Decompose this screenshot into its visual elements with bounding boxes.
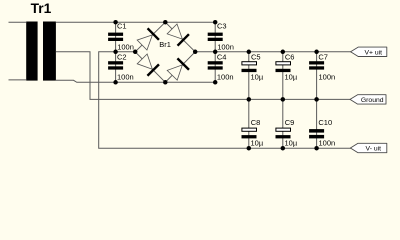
junction V- rail at C10 — [314, 146, 319, 151]
bridge rectifier Br1 diamond edges — [135, 22, 195, 82]
junction top rail at C1 — [113, 20, 118, 25]
svg-text:V- uit: V- uit — [366, 146, 382, 153]
capacitor C2 — [108, 61, 123, 69]
diode lower-left (V- to AC2) — [137, 54, 159, 76]
junction V+ rail at C7 — [314, 50, 319, 55]
junction mid rail at C1/C2 — [113, 50, 118, 55]
svg-text:100n: 100n — [319, 73, 336, 82]
capacitor C6 electrolytic — [276, 62, 291, 72]
node flag Ground — [350, 95, 386, 104]
junction V- rail at C8 — [247, 146, 252, 151]
wire net AC1 top rail — [56, 21, 215, 23]
junction bottom rail at C4 — [213, 80, 218, 85]
capacitor C3 — [208, 33, 223, 41]
wire V+ rail — [195, 51, 351, 53]
junction bridge left node — [133, 50, 138, 55]
svg-text:10µ: 10µ — [251, 139, 264, 148]
diode upper-left (V- to AC1) — [137, 28, 159, 50]
diode upper-right (AC1 to V+) — [167, 24, 189, 46]
svg-text:Ground: Ground — [361, 97, 384, 104]
wire primary top — [9, 21, 27, 23]
svg-text:C2: C2 — [117, 52, 127, 61]
svg-text:C3: C3 — [217, 22, 227, 31]
junction top rail at bridge top node — [163, 20, 168, 25]
junction V- rail at C9 — [281, 146, 286, 151]
junction V+ rail at C6 — [281, 50, 286, 55]
svg-text:10µ: 10µ — [285, 139, 298, 148]
junction ground rail at C7/C10 — [314, 97, 319, 102]
wire column C1/C2 — [115, 22, 117, 82]
node flag V+ uit — [351, 47, 387, 56]
junction bridge right node — [193, 50, 198, 55]
diode lower-right (AC2 to V+) — [167, 58, 189, 80]
junction top rail at C3 — [213, 20, 218, 25]
svg-text:V+ uit: V+ uit — [365, 49, 383, 56]
wire column C3/C4 — [214, 22, 216, 82]
svg-text:C6: C6 — [285, 52, 295, 61]
capacitor C4 — [208, 61, 223, 69]
wire center tap to ground rail — [56, 52, 350, 100]
svg-text:C4: C4 — [217, 52, 227, 61]
wire primary bottom — [9, 79, 27, 81]
junction ground rail at C6/C9 — [281, 97, 286, 102]
capacitor C9 electrolytic — [276, 128, 291, 138]
capacitor C10 — [309, 129, 324, 138]
svg-text:C10: C10 — [318, 118, 332, 127]
svg-text:100n: 100n — [117, 73, 134, 82]
svg-text:100n: 100n — [217, 42, 234, 51]
junction V+ rail at C3/C4 — [213, 50, 218, 55]
svg-text:C1: C1 — [117, 22, 127, 31]
wire net AC2 bottom tap with jog — [56, 80, 215, 82]
capacitor C8 electrolytic — [242, 128, 257, 138]
svg-text:10µ: 10µ — [285, 73, 298, 82]
wire V- link and V- rail — [99, 52, 351, 149]
svg-text:Tr1: Tr1 — [31, 1, 52, 16]
wire column C6/C9 — [282, 52, 284, 149]
capacitor C1 — [108, 33, 123, 41]
svg-text:100n: 100n — [319, 139, 336, 148]
wire column C5/C8 — [248, 52, 250, 149]
svg-text:C9: C9 — [285, 118, 295, 127]
svg-text:C5: C5 — [251, 52, 261, 61]
svg-text:C8: C8 — [251, 118, 261, 127]
wire column C7/C10 — [316, 52, 318, 149]
junction bridge bottom node — [163, 80, 168, 85]
svg-text:100n: 100n — [217, 73, 234, 82]
svg-text:100n: 100n — [117, 42, 134, 51]
transformer Tr1 — [26, 22, 56, 81]
junction bottom rail at C2 — [113, 80, 118, 85]
junction ground rail at C5/C8 — [247, 97, 252, 102]
capacitor C5 electrolytic — [242, 62, 257, 72]
svg-text:C7: C7 — [318, 52, 328, 61]
svg-text:10µ: 10µ — [251, 73, 264, 82]
svg-text:Br1: Br1 — [159, 40, 171, 49]
junction V+ rail at C5 — [247, 50, 252, 55]
node flag V- uit — [350, 143, 386, 152]
capacitor C7 — [309, 61, 324, 69]
